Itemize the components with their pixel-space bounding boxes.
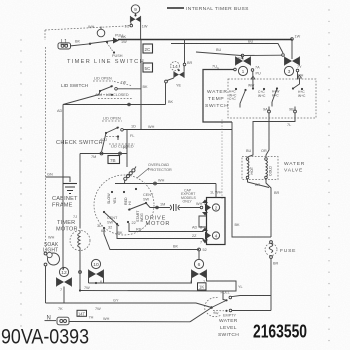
wire: dashed drop to L1 <box>44 30 46 40</box>
timer connector block <box>199 191 225 245</box>
wire: 12 to bottom rail <box>63 287 65 304</box>
wire: 7M jumper <box>80 152 127 159</box>
timer contact 3 <box>291 39 293 59</box>
drive motor M1 <box>94 163 172 235</box>
wire: neutral diagonal to water level common <box>190 308 211 322</box>
plug N <box>45 315 191 325</box>
terminal box 7B <box>108 146 128 164</box>
water valve <box>242 152 310 180</box>
wire: 7M to timer motor rail <box>79 154 81 229</box>
ground: cabinet frame <box>52 184 82 209</box>
wire: overload feed from WH line <box>118 130 127 168</box>
plug L1 <box>58 39 90 49</box>
wire: buss into connector top <box>215 184 217 198</box>
wire: column down to fuse top <box>232 122 271 237</box>
wire: motor to cap row <box>146 203 170 208</box>
capacitor C1 (export) <box>170 189 206 212</box>
decorative skipped: left dot column <box>20 39 21 326</box>
wire: 14 contact down to AD rail <box>165 83 167 105</box>
connector notch <box>199 216 207 227</box>
bottom rail GY <box>46 303 212 308</box>
wire: BU link over contacts <box>171 44 283 54</box>
lid switch <box>61 77 148 99</box>
ground GN wire <box>46 177 71 182</box>
wire: node link 1B <box>241 54 244 57</box>
terminal box 7K (right) <box>198 283 207 290</box>
decorative skipped: scan noise <box>0 0 1 1</box>
wire: 1W drop to lid switch <box>140 40 142 130</box>
wire: motor lower taps <box>127 221 129 223</box>
timer contact 1 <box>241 55 243 59</box>
wire: 7W rail <box>80 290 223 293</box>
wire: empty contact to fuse leg <box>232 310 271 312</box>
wire: check switch feed from AD rail <box>123 129 232 131</box>
water temp switch enclosure <box>228 79 316 118</box>
temp switch output terminals <box>268 110 271 113</box>
timer contact 10 <box>89 259 104 284</box>
wire: dashed 1C cam line <box>45 26 130 30</box>
water temp switch <box>171 39 316 118</box>
switch bank B <box>298 75 302 78</box>
wire: full contact to fuse leg <box>231 296 271 297</box>
terminal box 14T <box>77 310 87 316</box>
wire: 10 legs to 283 rail <box>89 279 104 284</box>
timer contact 4 <box>212 232 219 239</box>
cent switch arm upper <box>128 203 146 210</box>
wire: motor buss WH <box>115 183 216 185</box>
terminal box 2C <box>143 44 153 53</box>
timer contact 9 <box>125 5 148 29</box>
terminal box 5C <box>143 63 153 72</box>
wire: fuse bottom leg <box>270 259 272 311</box>
wire: 283 rail to contact 6 <box>89 282 192 284</box>
wire: contact 9 to buss <box>140 23 142 40</box>
legend: internal timer buss <box>167 6 249 12</box>
decorative skipped: right dot column <box>328 9 329 341</box>
wire: lid switch common down (AD) <box>63 91 100 270</box>
wire: 7U from contact 1 <box>203 70 234 123</box>
wire: check switch common left <box>102 133 107 152</box>
wire: main buss 1W <box>118 39 292 41</box>
check switch <box>56 117 135 149</box>
overload protector <box>124 177 127 180</box>
wire: valve feeds <box>248 113 296 157</box>
wire: motor BK to contact 6 <box>104 228 199 250</box>
wire: dotted linkage line <box>221 120 223 201</box>
soak light <box>43 233 63 266</box>
timer contact 6 <box>190 251 207 284</box>
water level switch <box>205 291 242 339</box>
wire: left rail (dashed console edge) <box>45 47 47 252</box>
timer line switch <box>67 27 145 66</box>
wire: contact 6 left leg <box>98 279 192 284</box>
timer contact 14 <box>165 40 193 88</box>
wire: timer motor bottom lead <box>79 251 81 291</box>
wire: contact 6 right leg <box>207 279 237 301</box>
timer contact 12 <box>57 267 72 292</box>
fuse F1 <box>265 241 296 266</box>
timer contact 2 <box>212 204 219 211</box>
timer motor TM <box>56 211 90 251</box>
wire: AD rail to YE terminal <box>63 104 166 106</box>
wire: valve to fuse <box>248 179 270 188</box>
switch bank A <box>251 76 255 79</box>
